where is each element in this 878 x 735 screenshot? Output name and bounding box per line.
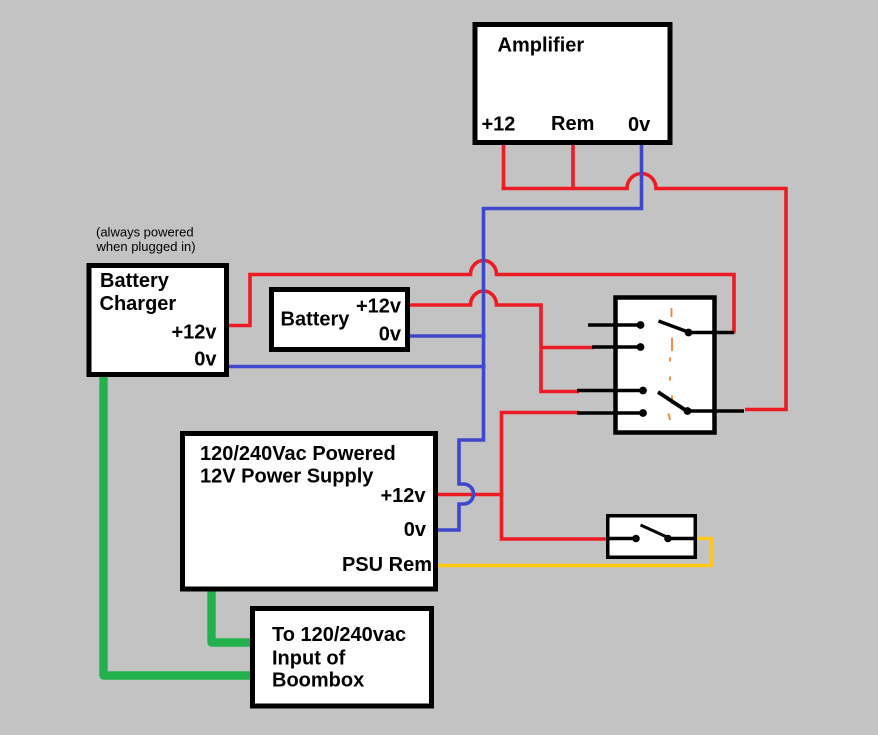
wire: red from Battery Charger +12v up and across (hop over blue) to switch upper-right pin xyxy=(226,261,734,334)
switch S1 pin 3 line xyxy=(577,389,643,392)
svg-text:12V Power Supply: 12V Power Supply xyxy=(200,466,374,488)
wire: yellow from small switch right pin to PSU Rem xyxy=(437,539,711,566)
svg-text:0v: 0v xyxy=(404,519,427,541)
svg-text:0v: 0v xyxy=(628,114,651,136)
switch S2 right dot xyxy=(664,535,672,543)
wire: green from Battery Charger bottom to Boombox xyxy=(104,373,252,676)
svg-text:+12v: +12v xyxy=(171,322,217,344)
switch S1 pin 1 line xyxy=(588,323,641,326)
switch S1 pin 4 dot xyxy=(639,409,647,417)
wire: blue Battery 0v to blue bus xyxy=(409,334,486,338)
wire: blue Battery Charger 0v to blue bus xyxy=(227,365,486,369)
switch S1 pin 4 line xyxy=(577,411,643,414)
switch S1 pin 1 dot xyxy=(637,321,645,329)
svg-text:Input of: Input of xyxy=(272,648,346,670)
svg-text:Charger: Charger xyxy=(100,293,177,315)
switch S2 right pin line xyxy=(668,537,695,540)
wire: red PSU +12v stub xyxy=(437,493,504,497)
switch S1 upper common dot xyxy=(685,329,693,337)
switch S1 upper common line xyxy=(690,331,735,334)
svg-text:PSU Rem: PSU Rem xyxy=(342,554,432,576)
wire: green from PSU bottom to Boombox xyxy=(212,588,252,643)
wire: blue from Amplifier 0v down, across, down (hop over red) to PSU 0v xyxy=(437,144,642,530)
orange dashed mechanical link xyxy=(671,308,673,317)
box: To 120/240vac Input of Boombox xyxy=(253,609,432,707)
svg-text:To 120/240vac: To 120/240vac xyxy=(272,624,406,646)
switch S1 lower lever xyxy=(658,392,688,412)
box: DPDT switch S1 xyxy=(616,298,715,433)
wire: red drop from Amplifier Rem xyxy=(571,144,575,188)
svg-text:0v: 0v xyxy=(379,324,402,346)
svg-text:+12v: +12v xyxy=(356,296,402,318)
svg-text:when plugged in): when plugged in) xyxy=(96,239,196,254)
wire: red from Battery +12v across (hop over blue) then down to switch pin 3 xyxy=(409,291,579,392)
svg-text:Boombox: Boombox xyxy=(272,670,364,692)
box: 120/240Vac Powered 12V Power Supply xyxy=(183,434,436,590)
switch S2 left dot xyxy=(632,535,640,543)
wire: red from switch pin 4 down to PSU +12v node and small switch xyxy=(502,413,607,540)
box: Battery Charger xyxy=(89,266,227,375)
switch S1 upper lever xyxy=(659,321,690,333)
box: SPST switch S2 xyxy=(608,516,696,558)
svg-text:+12: +12 xyxy=(482,114,516,136)
switch S2 left pin line xyxy=(608,537,636,540)
svg-text:0v: 0v xyxy=(194,349,217,371)
svg-text:Rem: Rem xyxy=(551,113,594,135)
switch S1 lower common line xyxy=(688,409,745,412)
box: Battery xyxy=(272,290,408,350)
box: Amplifier U1 xyxy=(475,25,670,143)
switch S2 lever xyxy=(641,525,669,538)
svg-text:+12v: +12v xyxy=(380,485,426,507)
wire: red bus from Amplifier +12/Rem, hop over blue, right side down to switch lower-right pin xyxy=(502,174,787,410)
switch S1 pin 2 dot xyxy=(637,343,645,351)
wire: red drop from Amplifier +12 xyxy=(502,144,506,188)
svg-text:Battery: Battery xyxy=(100,270,170,292)
svg-text:(always powered: (always powered xyxy=(96,225,194,240)
svg-text:Battery: Battery xyxy=(281,309,351,331)
wire: red branch to switch pin 2 xyxy=(541,346,594,350)
switch S1 lower common dot xyxy=(684,407,692,415)
switch S1 pin 2 line xyxy=(592,345,641,348)
svg-text:120/240Vac Powered: 120/240Vac Powered xyxy=(200,443,396,465)
svg-text:Amplifier: Amplifier xyxy=(498,35,585,57)
switch S1 pin 3 dot xyxy=(639,387,647,395)
